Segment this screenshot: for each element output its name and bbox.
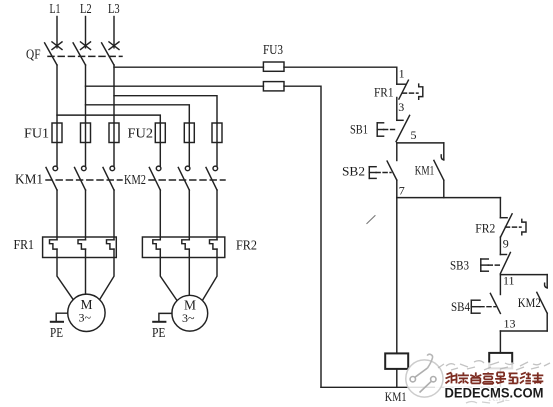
contactor KM2 label bbox=[124, 172, 146, 187]
relay FR1 heater b bbox=[78, 240, 86, 249]
node 7 bbox=[399, 184, 405, 198]
wire L1 incoming bbox=[56, 17, 58, 48]
contactor KM1 linkage dashed bbox=[46, 179, 122, 181]
pushbutton SB4 (NO start) bbox=[471, 275, 500, 314]
relay FR1 heater a bbox=[50, 240, 58, 249]
pushbutton SB1 linkage dashed bbox=[384, 129, 395, 131]
contactor KM2 main contact 1 bbox=[149, 166, 161, 190]
wire node7 to KM1 coil bbox=[396, 198, 398, 354]
pushbutton SB1 label bbox=[350, 122, 368, 137]
svg-text:SB2: SB2 bbox=[342, 164, 365, 179]
contactor KM2 aux label bbox=[518, 295, 541, 310]
wire node7 to FR2 bbox=[499, 198, 501, 218]
wire control feed top bbox=[114, 66, 263, 68]
contactor KM1 aux label bbox=[415, 162, 435, 177]
relay contact FR1 label bbox=[374, 85, 394, 100]
fuse FU2 element a bbox=[155, 123, 165, 143]
pushbutton SB3 (NC stop) bbox=[481, 253, 511, 274]
svg-text:DEDECMS.COM: DEDECMS.COM bbox=[445, 385, 544, 401]
svg-text:PE: PE bbox=[152, 325, 166, 340]
relay FR1 trip device bbox=[419, 84, 423, 99]
node L3 bbox=[108, 1, 120, 16]
pushbutton SB3 label bbox=[450, 258, 469, 273]
fuse FU3 element 2 bbox=[263, 82, 284, 91]
fuse FU1 element b bbox=[81, 123, 91, 143]
motor M2 bbox=[172, 295, 208, 331]
svg-text:SB3: SB3 bbox=[450, 258, 469, 273]
wire KM2 coil to rail bbox=[499, 368, 501, 387]
svg-text:KM1: KM1 bbox=[415, 162, 435, 177]
relay FR1 label bbox=[14, 237, 35, 252]
svg-text:L1: L1 bbox=[50, 1, 61, 16]
contactor KM1 main contact 2 bbox=[75, 166, 87, 190]
wire FU3-2 to left control rail bbox=[284, 86, 321, 387]
relay FR2 heater c bbox=[210, 240, 218, 249]
wire L2 incoming bbox=[85, 17, 87, 48]
node 13 bbox=[504, 317, 516, 331]
node L1 bbox=[50, 1, 61, 16]
wire FU2-c vertical bbox=[216, 123, 218, 166]
fuse FU1 element a bbox=[52, 123, 62, 143]
watermark bbox=[406, 354, 553, 403]
pushbutton SB2 label bbox=[342, 164, 365, 179]
fuse FU2 label bbox=[128, 126, 154, 141]
motor M1 bbox=[68, 294, 105, 331]
wire FR2-b to motor2 bbox=[188, 249, 190, 295]
svg-text:FR1: FR1 bbox=[374, 85, 394, 100]
relay FR2 box bbox=[142, 237, 224, 258]
node 1 bbox=[399, 67, 405, 81]
svg-text:L3: L3 bbox=[108, 1, 120, 16]
svg-text:KM1: KM1 bbox=[385, 389, 407, 404]
relay FR1 heater c bbox=[107, 240, 115, 249]
svg-text:SB4: SB4 bbox=[451, 299, 470, 314]
svg-text:FR2: FR2 bbox=[236, 237, 257, 252]
wire node5 branch bbox=[397, 142, 444, 144]
ground PE motor1 bbox=[50, 313, 68, 340]
node 9 bbox=[503, 237, 509, 251]
contactor KM1 main contact 3 bbox=[103, 166, 115, 190]
wire node13 join bbox=[500, 330, 547, 332]
ground PE motor2 bbox=[152, 313, 172, 340]
svg-text:5: 5 bbox=[411, 128, 417, 142]
contactor KM1 aux contact (NO) bbox=[434, 143, 444, 198]
wire FR1-a to motor1 bbox=[57, 249, 73, 300]
wire node9 bbox=[499, 237, 501, 254]
pushbutton SB2 linkage dashed bbox=[376, 172, 391, 174]
relay contact FR2 label bbox=[475, 221, 495, 236]
fuse FU2 element b bbox=[184, 123, 194, 143]
coil KM2 label bbox=[488, 389, 510, 404]
svg-text:FU3: FU3 bbox=[263, 42, 283, 57]
wire phase B vertical bbox=[85, 65, 87, 166]
wire control feed bottom bbox=[86, 85, 264, 87]
breaker QF linkage dashed bbox=[48, 55, 122, 57]
wire FU2-b vertical bbox=[188, 123, 190, 166]
wire FR1-b to motor1 bbox=[85, 249, 87, 294]
fuse FU3 element 1 bbox=[263, 62, 284, 71]
svg-text:11: 11 bbox=[503, 274, 515, 288]
coil KM1 label bbox=[385, 389, 407, 404]
relay FR2 heater b bbox=[182, 240, 190, 249]
svg-text:FU2: FU2 bbox=[128, 126, 154, 141]
wire tap L2 to FU2-b bbox=[86, 105, 190, 123]
relay contact FR1 (NC) bbox=[397, 80, 409, 99]
wire FU3-1 to FR1 column bbox=[284, 67, 397, 84]
svg-text:13: 13 bbox=[504, 317, 516, 331]
wire FU2-a vertical bbox=[159, 123, 161, 166]
wire phase C vertical bbox=[113, 65, 115, 166]
fuse FU1 element c bbox=[109, 123, 119, 143]
svg-text:PE: PE bbox=[50, 325, 63, 340]
relay FR2 heater a bbox=[153, 240, 161, 249]
pushbutton SB2 (NO start) bbox=[369, 143, 397, 180]
svg-text:SB1: SB1 bbox=[350, 122, 368, 137]
svg-text:L2: L2 bbox=[80, 1, 92, 16]
svg-text:3: 3 bbox=[398, 100, 404, 114]
contactor KM1 main contact 1 bbox=[46, 166, 58, 190]
relay FR1 trip linkage dashed bbox=[403, 92, 419, 94]
svg-text:1: 1 bbox=[399, 67, 405, 81]
svg-text:FU1: FU1 bbox=[24, 126, 49, 141]
breaker QF label bbox=[26, 47, 41, 62]
node 3 bbox=[398, 100, 404, 114]
wire KM1-b to FR1 bbox=[85, 190, 87, 240]
wire node13 to KM2 coil bbox=[499, 331, 501, 353]
svg-text:9: 9 bbox=[503, 237, 509, 251]
breaker QF pole 2 bbox=[73, 42, 90, 65]
svg-text:KM2: KM2 bbox=[124, 172, 146, 187]
fuse FU1 label bbox=[24, 126, 49, 141]
svg-text:FR2: FR2 bbox=[475, 221, 495, 236]
node 11 bbox=[503, 274, 515, 288]
wire SB2 to node7 bbox=[396, 180, 398, 198]
node 5 bbox=[411, 128, 417, 142]
coil KM2 bbox=[489, 353, 512, 369]
watermark chinese text bbox=[446, 372, 544, 384]
contactor KM1 label bbox=[15, 171, 43, 186]
wire FR2-a to motor2 bbox=[160, 249, 176, 300]
wire FR2-c to motor2 bbox=[203, 249, 217, 300]
fuse FU3 label bbox=[263, 42, 283, 57]
svg-text:QF: QF bbox=[26, 47, 41, 62]
wire node11 branch bbox=[500, 274, 547, 276]
svg-text:FR1: FR1 bbox=[14, 237, 35, 252]
contactor KM2 aux contact (NO) bbox=[537, 275, 547, 331]
contactor KM2 main contact 3 bbox=[206, 166, 218, 190]
relay FR2 trip linkage dashed bbox=[506, 226, 522, 228]
wire L3 incoming bbox=[113, 17, 115, 48]
breaker QF pole 1 bbox=[45, 42, 62, 65]
wire FR1-c to motor1 bbox=[100, 249, 114, 300]
wire tap L3 to FU2-c bbox=[114, 96, 217, 123]
pushbutton SB3 linkage dashed bbox=[488, 264, 501, 266]
wire KM2-b to FR2 bbox=[188, 190, 190, 240]
wire tap L1 to FU2-a bbox=[57, 115, 160, 123]
wire phase A vertical bbox=[56, 65, 58, 166]
relay contact FR2 (NC) bbox=[500, 214, 512, 237]
svg-text:KM1: KM1 bbox=[15, 171, 43, 186]
wire node7 rail bbox=[397, 197, 501, 199]
relay FR2 trip device bbox=[522, 219, 526, 235]
svg-text:3~: 3~ bbox=[79, 311, 92, 325]
node L2 bbox=[80, 1, 92, 16]
fuse FU2 element c bbox=[212, 123, 222, 143]
pushbutton SB4 linkage dashed bbox=[480, 306, 496, 308]
contactor KM2 linkage dashed bbox=[149, 179, 225, 181]
watermark dedecms text bbox=[445, 385, 544, 401]
svg-text:KM2: KM2 bbox=[518, 295, 541, 310]
wire KM1-c to FR1 bbox=[113, 190, 115, 240]
wire KM2-c to FR2 bbox=[216, 190, 218, 240]
watermark ghost scribbles bbox=[438, 361, 550, 403]
wire KM1-a to FR1 bbox=[56, 190, 58, 240]
svg-text:3~: 3~ bbox=[182, 311, 195, 325]
coil KM1 bbox=[385, 353, 408, 369]
pushbutton SB1 (NC stop) bbox=[377, 115, 409, 141]
wire bottom rail bbox=[321, 386, 500, 388]
svg-text:7: 7 bbox=[399, 184, 405, 198]
breaker QF pole 3 bbox=[102, 42, 119, 65]
wire node3 bbox=[396, 98, 398, 121]
pushbutton SB4 label bbox=[451, 299, 470, 314]
stray mark bbox=[367, 216, 375, 224]
relay FR1 box bbox=[43, 237, 117, 258]
wire KM2-a to FR2 bbox=[159, 190, 161, 240]
contactor KM2 main contact 2 bbox=[178, 166, 190, 190]
relay FR2 label bbox=[236, 237, 257, 252]
wire KM1 coil to rail bbox=[396, 369, 398, 387]
